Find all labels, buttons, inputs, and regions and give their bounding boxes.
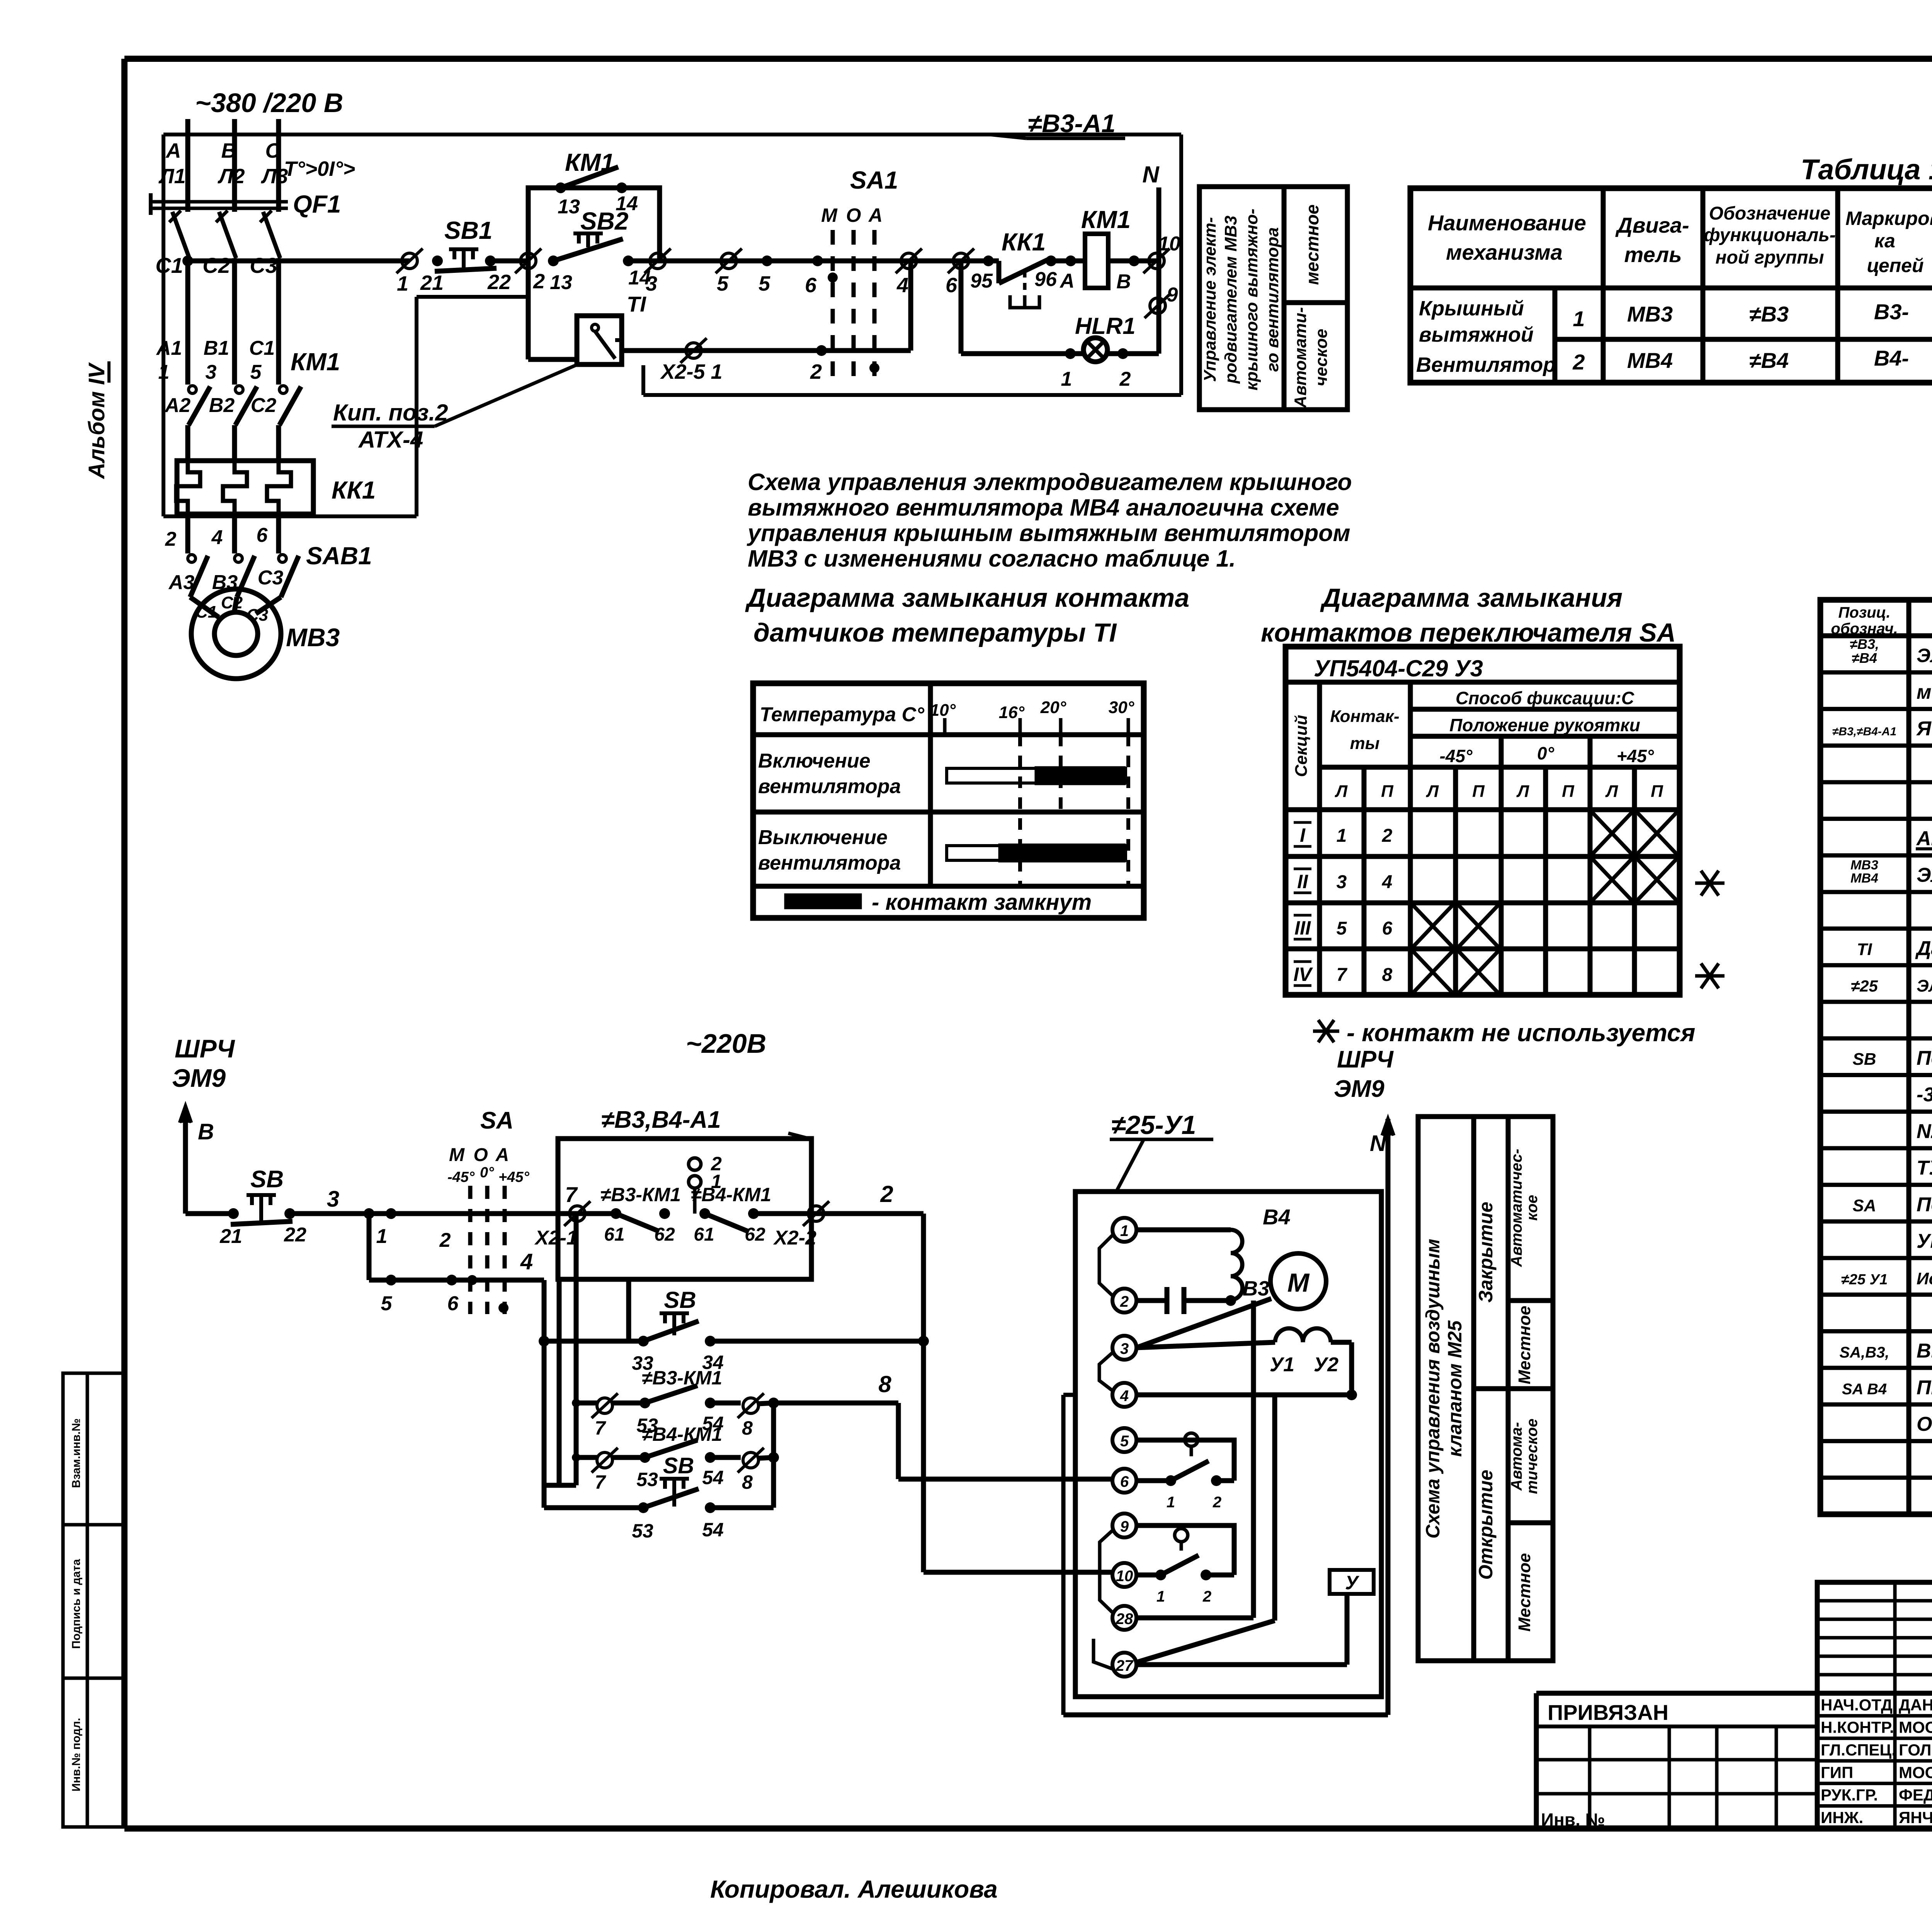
svg-text:Инв. №: Инв. № [1541, 1810, 1605, 1830]
svg-text:механизма: механизма [1446, 240, 1563, 264]
terminal 5 [721, 253, 736, 269]
svg-text:SA: SA [1852, 1196, 1876, 1215]
svg-text:АТХ-4: АТХ-4 [358, 427, 423, 453]
svg-text:Т°>0I°>: Т°>0I°> [284, 157, 355, 180]
svg-text:22: 22 [284, 1224, 306, 1246]
svg-text:клапаном М25: клапаном М25 [1444, 1320, 1466, 1457]
closing bar: vykluchenie [947, 846, 1126, 860]
svg-text:ГИП: ГИП [1821, 1763, 1853, 1781]
svg-text:У1: У1 [1270, 1353, 1294, 1376]
svg-text:Диаграмма замыкания контакта: Диаграмма замыкания контакта [745, 583, 1189, 613]
wire: actuator terminal 4 to neutral run [1063, 1393, 1075, 1397]
svg-text:Двига-: Двига- [1615, 213, 1689, 237]
svg-text:10°: 10° [930, 701, 956, 720]
svg-text:28: 28 [1116, 1611, 1133, 1628]
svg-text:1: 1 [1156, 1588, 1165, 1605]
wire: KK1 to control circuit return [185, 514, 190, 553]
svg-text:Способ фиксации:С: Способ фиксации:С [1456, 688, 1634, 708]
svg-text:ПВ3-25/У356 исп. IV: ПВ3-25/У356 исп. IV [1917, 1376, 1932, 1399]
svg-text:тель: тель [1624, 242, 1682, 267]
svg-text:13: 13 [558, 196, 580, 218]
svg-text:РУК.ГР.: РУК.ГР. [1821, 1786, 1878, 1804]
svg-text:МВ3 с изменениями согласно таб: МВ3 с изменениями согласно таблице 1. [748, 545, 1236, 572]
svg-text:1: 1 [1573, 306, 1585, 331]
actuator box 25-U1 [1075, 1192, 1381, 1697]
svg-text:SA В4: SA В4 [1842, 1381, 1887, 1398]
svg-text:4: 4 [1382, 872, 1393, 892]
wire 8 to actuator [774, 1401, 898, 1406]
svg-text:Выключение: Выключение [758, 826, 888, 849]
svg-text:НАЧ.ОТД: НАЧ.ОТД [1821, 1696, 1893, 1714]
svg-text:20°: 20° [1040, 698, 1066, 717]
svg-text:Копировал. Алешикова: Копировал. Алешикова [710, 1875, 998, 1903]
svg-text:МВ3: МВ3 [1627, 302, 1673, 326]
svg-text:ми МВ3, МВ4: ми МВ3, МВ4 [1917, 681, 1932, 703]
svg-text:HLR1: HLR1 [1075, 313, 1136, 339]
svg-text:61: 61 [694, 1224, 714, 1245]
svg-text:1: 1 [1061, 368, 1072, 390]
title block lower-left grid [1536, 1758, 1817, 1762]
svg-text:С3: С3 [250, 253, 277, 278]
wires to motor [190, 597, 219, 617]
svg-text:9: 9 [1167, 284, 1178, 306]
svg-text:8: 8 [742, 1471, 753, 1493]
svg-text:Л2: Л2 [217, 165, 245, 188]
svg-text:С3: С3 [258, 567, 284, 589]
svg-text:управления крышным вытяжным ве: управления крышным вытяжным вентилятором [747, 520, 1350, 546]
svg-text:Исполнительный механизм МЭО-10: Исполнительный механизм МЭО-100/25-0,25 [1917, 1269, 1932, 1288]
svg-text:Маркиров: Маркиров [1845, 208, 1932, 229]
node 5 [762, 255, 772, 266]
connector pins 2 1 [689, 1158, 701, 1170]
svg-text:5: 5 [1120, 1433, 1129, 1450]
svg-text:2: 2 [1572, 350, 1585, 374]
SA table grid [1286, 647, 1680, 995]
svg-text:4: 4 [896, 274, 908, 297]
svg-text:Обозначение: Обозначение [1709, 203, 1830, 224]
svg-text:С2: С2 [221, 593, 243, 612]
svg-text:7: 7 [595, 1471, 606, 1493]
svg-text:У2: У2 [1314, 1353, 1338, 1376]
svg-text:Альбом IV: Альбом IV [84, 362, 109, 480]
svg-text:54: 54 [702, 1519, 724, 1541]
svg-text:4: 4 [520, 1249, 533, 1274]
svg-text:А: А [495, 1145, 509, 1165]
svg-text:С1: С1 [249, 337, 275, 359]
svg-text:ПРИВЯЗАН: ПРИВЯЗАН [1548, 1700, 1668, 1725]
node junction to lower branch [364, 1208, 374, 1219]
svg-text:10: 10 [1158, 233, 1180, 255]
svg-text:6: 6 [805, 274, 817, 297]
svg-text:Наименование: Наименование [1428, 211, 1586, 235]
svg-text:≠В3,: ≠В3, [1850, 636, 1879, 652]
svg-text:IV: IV [1293, 964, 1313, 985]
svg-text:≠В3,В4-А1: ≠В3,В4-А1 [601, 1107, 721, 1133]
svg-text:М: М [1287, 1268, 1310, 1297]
svg-text:Л: Л [1516, 782, 1529, 801]
svg-text:≠В4: ≠В4 [1852, 650, 1877, 666]
svg-text:SB1: SB1 [444, 216, 493, 244]
svg-text:УП5404-С29У2 ТУ16-524.074-75: УП5404-С29У2 ТУ16-524.074-75 [1917, 1230, 1932, 1253]
svg-text:крышного вытяжно-: крышного вытяжно- [1242, 209, 1261, 391]
node 6 [812, 255, 823, 266]
svg-text:≠В3: ≠В3 [1749, 302, 1789, 326]
svg-text:≠В4: ≠В4 [1749, 348, 1789, 373]
svg-text:Таблица 1: Таблица 1 [1801, 153, 1932, 186]
neutral riser N (right) [1386, 1119, 1391, 1715]
wire: terminal 3 to motor [1136, 1299, 1271, 1348]
wire: terminal 4 run [1136, 1393, 1352, 1398]
svg-text:О: О [473, 1145, 488, 1165]
wire: sensor output X2-5 [622, 348, 810, 353]
wire: KM1 holding branch [528, 188, 660, 261]
svg-text:3: 3 [1337, 872, 1347, 892]
svg-text:Автома-: Автома- [1508, 1422, 1525, 1491]
svg-text:Л: Л [1605, 782, 1618, 801]
svg-text:УП5404-С29 У3: УП5404-С29 У3 [1314, 655, 1483, 681]
svg-text:ГОЛЬЦМАН: ГОЛЬЦМАН [1899, 1741, 1932, 1759]
svg-text:Н.КОНТР.: Н.КОНТР. [1821, 1718, 1894, 1737]
svg-text:ЯНЧЕНКО: ЯНЧЕНКО [1899, 1808, 1932, 1827]
svg-text:2: 2 [810, 360, 822, 383]
svg-text:В3: В3 [1243, 1277, 1269, 1300]
table 1 grid [1410, 188, 1932, 383]
svg-text:0°: 0° [1537, 743, 1554, 763]
svg-text:Схема управления воздушным: Схема управления воздушным [1422, 1239, 1444, 1539]
svg-text:Схема управления электродвигат: Схема управления электродвигателем крышн… [748, 469, 1352, 495]
left rail [574, 1214, 579, 1485]
electric motor M [1270, 1253, 1326, 1309]
svg-text:Переключатель универсальный: Переключатель универсальный [1917, 1193, 1932, 1216]
svg-text:6: 6 [1120, 1473, 1129, 1490]
caption table: scheme upravleniya vozdushnym klapanom M25 [1418, 1117, 1553, 1661]
svg-text:-3У2; 3/1 N1-4,3., 1з; Впер: -3У2; 3/1 N1-4,3., 1з; Вперед”; [1917, 1084, 1932, 1106]
svg-text:МОСЕЕНКО: МОСЕЕНКО [1899, 1763, 1932, 1781]
svg-text:SB: SB [250, 1166, 284, 1193]
svg-text:ГЛ.СПЕЦ.: ГЛ.СПЕЦ. [1821, 1741, 1896, 1759]
terminal X2-5 1 [686, 343, 701, 358]
svg-text:2: 2 [880, 1181, 893, 1207]
svg-text:Аппаратура по месту: Аппаратура по месту [1916, 827, 1932, 850]
push button SB (33-34) [626, 1279, 631, 1341]
svg-text:вентилятора: вентилятора [758, 852, 901, 874]
svg-text:3: 3 [206, 361, 217, 383]
svg-text:Автомати-: Автомати- [1291, 307, 1310, 409]
svg-text:Контак-: Контак- [1330, 707, 1399, 726]
svg-text:13: 13 [550, 271, 572, 294]
svg-text:Подпись и дата: Подпись и дата [70, 1559, 83, 1649]
svg-text:≠В3-КМ1: ≠В3-КМ1 [600, 1184, 681, 1205]
svg-text:В: В [1116, 271, 1131, 293]
svg-text:21: 21 [420, 271, 444, 295]
temperature dashed gridlines [1018, 735, 1022, 886]
svg-text:3: 3 [646, 272, 657, 295]
svg-text:96: 96 [1034, 268, 1057, 291]
svg-text:ческое: ческое [1312, 329, 1331, 386]
wire: terminal 27 run [1136, 1662, 1347, 1667]
svg-text:Взам.инв.№: Взам.инв.№ [70, 1418, 83, 1488]
svg-text:-45°: -45° [1440, 746, 1473, 766]
svg-text:1: 1 [397, 272, 408, 295]
svg-text:≠25 У1: ≠25 У1 [1841, 1272, 1888, 1288]
svg-text:SA1: SA1 [850, 166, 898, 194]
svg-text:го вентилятора: го вентилятора [1263, 227, 1282, 372]
temperature sensor contact T1 [577, 316, 622, 364]
svg-text:6: 6 [1382, 918, 1393, 939]
SA cross marks section II [1590, 856, 1634, 903]
svg-text:ШРЧ: ШРЧ [1337, 1046, 1394, 1073]
title block small grid [1817, 1582, 1932, 1693]
svg-text:М: М [449, 1145, 465, 1165]
svg-text:62: 62 [654, 1224, 675, 1245]
cabinet outline B3-A1 [163, 133, 1181, 136]
svg-text:Электродвигатель 4А 112МВВУЗ: Электродвигатель 4А 112МВВУЗ [1917, 864, 1932, 886]
svg-text:≠В3-КМ1: ≠В3-КМ1 [642, 1367, 722, 1389]
svg-text:МВ4: МВ4 [1850, 871, 1878, 885]
svg-text:ТУ 16-526.216-78: ТУ 16-526.216-78 [1917, 1157, 1932, 1179]
svg-text:кое: кое [1524, 1195, 1541, 1221]
svg-text:ОСТ16. 0526. 001-77: ОСТ16. 0526. 001-77 [1917, 1413, 1932, 1435]
svg-text:ной группы: ной группы [1716, 247, 1824, 268]
legend closed contact [784, 894, 862, 909]
svg-text:датчиков температуры ТI: датчиков температуры ТI [753, 618, 1117, 647]
svg-text:N: N [1370, 1131, 1386, 1156]
svg-text:А: А [868, 204, 883, 226]
wire: lamp branch [959, 261, 964, 354]
right rail [771, 1403, 776, 1508]
svg-text:5: 5 [381, 1292, 393, 1315]
title block signature rows [1815, 1693, 1820, 1828]
svg-text:2: 2 [1120, 1293, 1129, 1310]
svg-text:А3: А3 [168, 571, 195, 594]
wire 2 riser to actuator [921, 1214, 926, 1572]
svg-text:-45°: -45° [447, 1169, 475, 1185]
svg-text:~220В: ~220В [686, 1028, 766, 1059]
svg-text:Элементы управления электродви: Элементы управления электродвигателем М2… [1917, 977, 1932, 996]
svg-text:Пост управления кнопочный ПКЕ-: Пост управления кнопочный ПКЕ-222- [1917, 1047, 1932, 1069]
svg-text:Элементы управления электродви: Элементы управления электродвигателя- [1917, 645, 1932, 666]
svg-text:2: 2 [533, 270, 545, 293]
svg-text:МОСЕЕНКО: МОСЕЕНКО [1899, 1718, 1932, 1737]
svg-text:2: 2 [1119, 368, 1131, 390]
svg-text:10: 10 [1116, 1568, 1133, 1585]
parts table grid [1820, 600, 1932, 1514]
svg-text:SB: SB [664, 1287, 696, 1313]
svg-text:В: В [198, 1119, 214, 1144]
svg-text:N2-4,4. 1з;„Назад”; N3-Ц, к.: N2-4,4. 1з;„Назад”; N3-Ц, к. 1р;„Стоп”, [1917, 1120, 1932, 1142]
terminal 4 [901, 253, 917, 269]
svg-text:МВ3: МВ3 [1850, 858, 1878, 872]
SA cross marks section III [1411, 903, 1455, 949]
connector box V3 V4 A1 [558, 1139, 811, 1279]
svg-text:3: 3 [327, 1187, 339, 1212]
svg-text:62: 62 [745, 1224, 765, 1245]
wire: 9 loop to switch 10 [1136, 1525, 1234, 1575]
terminal pair stubs [1099, 1235, 1112, 1296]
svg-text:В4-: В4- [1874, 346, 1909, 370]
svg-text:SAB1: SAB1 [306, 542, 372, 570]
svg-text:1: 1 [1167, 1494, 1175, 1511]
svg-text:27: 27 [1116, 1657, 1134, 1674]
wire: 5 loop to switch 6 [1136, 1440, 1234, 1481]
svg-text:Позиц.: Позиц. [1838, 604, 1891, 621]
svg-text:≠В4-КМ1: ≠В4-КМ1 [691, 1184, 771, 1205]
svg-text:В: В [221, 139, 236, 162]
svg-text:А1: А1 [156, 337, 182, 359]
svg-text:Положение рукоятки: Положение рукоятки [1449, 715, 1640, 735]
svg-text:Вентилятор: Вентилятор [1416, 353, 1556, 376]
svg-text:ка: ка [1874, 230, 1895, 252]
node A [1065, 255, 1076, 266]
svg-text:местное: местное [1302, 204, 1322, 285]
svg-text:Закрытие: Закрытие [1475, 1202, 1497, 1302]
svg-text:4: 4 [211, 526, 223, 549]
svg-text:2: 2 [1202, 1588, 1211, 1605]
svg-text:2: 2 [1382, 826, 1393, 846]
svg-text:Открытие: Открытие [1475, 1470, 1497, 1580]
svg-text:8: 8 [1382, 965, 1393, 985]
closing bar: vkluchenie [947, 768, 1126, 783]
svg-text:родвигателем МВ3: родвигателем МВ3 [1221, 216, 1240, 384]
svg-text:вытяжного вентилятора МВ4 анал: вытяжного вентилятора МВ4 аналогична схе… [748, 494, 1339, 521]
svg-text:SB2: SB2 [580, 207, 629, 235]
left margin strip [63, 1373, 124, 1827]
device box U [1330, 1570, 1374, 1594]
svg-text:9: 9 [1120, 1518, 1129, 1535]
wire: node 2 to temperature sensor [526, 261, 531, 359]
svg-text:61: 61 [604, 1224, 624, 1245]
svg-text:КК1: КК1 [1002, 228, 1046, 256]
svg-text:≠25: ≠25 [1851, 977, 1878, 995]
T1 diagram grid [753, 683, 1144, 918]
motor MV3 [191, 589, 281, 679]
limit switch at terminal 6 [1136, 1478, 1171, 1483]
svg-text:ДАНИЛОВ: ДАНИЛОВ [1899, 1696, 1932, 1714]
svg-text:О: О [846, 204, 861, 226]
svg-text:КМ1: КМ1 [291, 348, 340, 376]
svg-text:В4: В4 [1263, 1205, 1291, 1229]
node: control tap on phase A [182, 255, 193, 266]
svg-text:95: 95 [970, 270, 993, 292]
svg-text:С1: С1 [196, 603, 217, 621]
wire: terminal 28 run [1136, 1616, 1253, 1621]
svg-text:III: III [1294, 917, 1311, 939]
limit switch at terminal 10 [1136, 1573, 1161, 1578]
svg-text:- контакт замкнут: - контакт замкнут [872, 890, 1092, 915]
svg-text:ШРЧ: ШРЧ [175, 1034, 235, 1063]
svg-text:П: П [1381, 782, 1394, 801]
SA cross marks section I [1590, 810, 1634, 856]
svg-text:Диаграмма замыкания: Диаграмма замыкания [1320, 583, 1622, 613]
svg-text:N: N [1142, 162, 1160, 187]
svg-text:Датчик температуры ДТКБ-44: Датчик температуры ДТКБ-44 [1915, 937, 1932, 960]
svg-text:обознач.: обознач. [1831, 620, 1898, 637]
terminal X2-1 wire 7 [570, 1206, 585, 1221]
svg-text:5: 5 [250, 361, 262, 383]
svg-text:≠25-У1: ≠25-У1 [1111, 1110, 1196, 1140]
svg-text:I: I [1300, 824, 1306, 846]
svg-text:Включение: Включение [758, 750, 871, 772]
svg-text:8: 8 [742, 1417, 753, 1439]
svg-text:Секций: Секций [1292, 715, 1311, 777]
svg-text:5: 5 [759, 272, 770, 295]
svg-text:0°: 0° [480, 1165, 494, 1181]
svg-text:X2-5 1: X2-5 1 [660, 360, 722, 383]
svg-text:53: 53 [632, 1520, 653, 1542]
svg-text:П: П [1472, 782, 1485, 801]
svg-text:+45°: +45° [1617, 746, 1654, 766]
svg-text:5: 5 [1337, 918, 1347, 939]
terminal X2-2 [808, 1206, 824, 1221]
svg-text:ИНЖ.: ИНЖ. [1821, 1808, 1863, 1827]
svg-text:SA: SA [480, 1107, 514, 1134]
svg-text:ЭМ9: ЭМ9 [172, 1064, 226, 1092]
svg-text:П: П [1562, 782, 1575, 801]
arrow to bus B [183, 1115, 188, 1214]
svg-text:II: II [1297, 871, 1308, 892]
svg-text:Л: Л [1426, 782, 1439, 801]
svg-text:Кип. поз.2: Кип. поз.2 [333, 400, 448, 426]
terminal 1 [402, 253, 417, 269]
svg-text:МВ3: МВ3 [286, 623, 340, 652]
svg-text:У: У [1345, 1572, 1360, 1594]
wire: box bottom riser [557, 1279, 562, 1485]
svg-text:В1: В1 [204, 337, 229, 359]
svg-text:1: 1 [376, 1225, 388, 1248]
title block privyazan row [1536, 1691, 1932, 1696]
svg-text:≠В3-А1: ≠В3-А1 [1028, 109, 1116, 138]
phase feeder wires A B C [185, 119, 190, 212]
svg-text:МВ4: МВ4 [1627, 348, 1673, 373]
svg-text:2: 2 [165, 528, 177, 550]
SA footnote [1313, 1030, 1339, 1033]
svg-text:QF1: QF1 [293, 190, 341, 218]
svg-text:SA,В3,: SA,В3, [1840, 1344, 1889, 1361]
svg-text:Выключатель пакетный: Выключатель пакетный [1917, 1340, 1932, 1362]
svg-text:6: 6 [447, 1292, 459, 1315]
lower branch wire 4 [367, 1214, 372, 1280]
svg-text:В2: В2 [209, 394, 235, 417]
svg-text:8: 8 [878, 1371, 891, 1397]
svg-text:- контакт не используется: - контакт не используется [1347, 1019, 1695, 1047]
node 2 [520, 253, 536, 269]
svg-text:7: 7 [565, 1182, 578, 1207]
svg-text:2: 2 [439, 1229, 451, 1251]
capacitor [1136, 1298, 1167, 1303]
svg-text:КК1: КК1 [332, 476, 376, 504]
svg-text:SB: SB [1852, 1050, 1876, 1069]
svg-text:7: 7 [1337, 965, 1348, 985]
svg-text:П: П [1651, 782, 1663, 801]
svg-text:6: 6 [946, 274, 957, 297]
svg-text:Л: Л [1335, 782, 1348, 801]
svg-text:+45°: +45° [498, 1169, 529, 1185]
svg-text:КМ1: КМ1 [1081, 206, 1131, 233]
svg-text:Управление элект-: Управление элект- [1201, 217, 1219, 382]
svg-text:ТI: ТI [1857, 940, 1872, 959]
svg-text:53: 53 [636, 1469, 658, 1490]
svg-text:4: 4 [1120, 1388, 1129, 1405]
svg-text:1: 1 [1337, 826, 1347, 846]
coil U1 U2 [1136, 1342, 1275, 1348]
svg-text:Местное: Местное [1515, 1306, 1534, 1384]
svg-text:≠В3,≠В4-А1: ≠В3,≠В4-А1 [1832, 725, 1896, 738]
svg-text:≠В4-КМ1: ≠В4-КМ1 [642, 1423, 722, 1445]
svg-text:6: 6 [257, 524, 268, 546]
svg-text:5: 5 [717, 272, 729, 295]
wire: main 220V run [185, 1211, 233, 1216]
svg-text:ТI: ТI [627, 292, 646, 316]
